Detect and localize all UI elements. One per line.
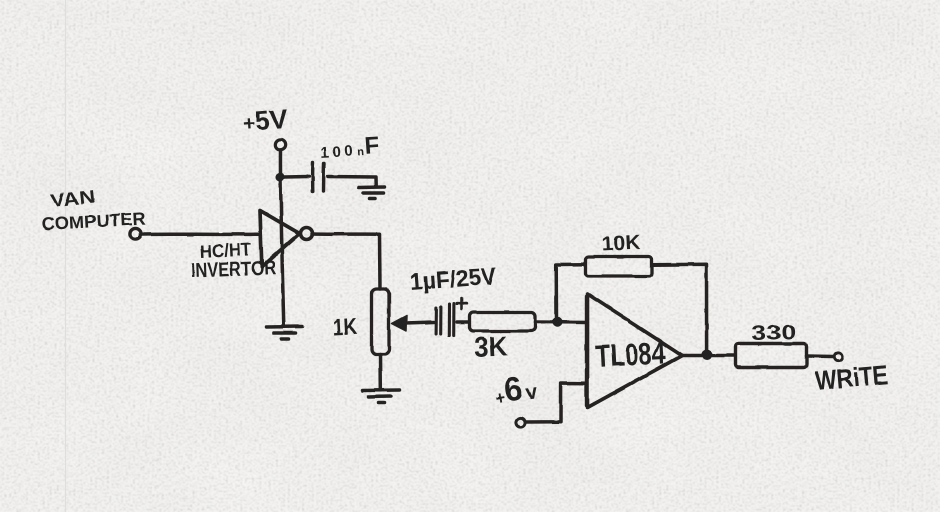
potentiometer wiper arrow — [392, 316, 407, 332]
svg-text:TL084: TL084 — [595, 335, 667, 374]
wire: feedback right and down to output — [652, 264, 707, 351]
capacitor 100nF — [311, 163, 315, 192]
WRITE terminal — [834, 352, 842, 360]
wire: inverter output to 1K pot — [312, 234, 380, 289]
wire: 330 to WRITE terminal — [807, 354, 834, 358]
+6V terminal — [516, 418, 525, 427]
ground (pot) — [363, 388, 400, 392]
wire: +5V supply down through inverter to ground — [280, 151, 283, 327]
op-amp U2 TL084 — [588, 294, 683, 408]
resistor 330 — [736, 344, 807, 368]
+5V terminal — [275, 139, 285, 149]
junction: +5V / 100nF — [275, 172, 284, 181]
inverter U1 triangle — [260, 211, 300, 267]
plus sign of C2 — [457, 299, 467, 310]
potentiometer 1K body — [372, 289, 390, 354]
resistor 10K (feedback) — [586, 257, 652, 277]
inverter output bubble — [301, 228, 313, 240]
resistor 3K — [470, 313, 536, 332]
wire: C1 to ground — [328, 177, 376, 187]
junction: output node — [701, 350, 711, 360]
ground (inverter) — [266, 325, 302, 329]
wire: 3K to op-amp inverting input — [535, 320, 587, 324]
svg-text:WRiTE: WRiTE — [814, 360, 889, 396]
wire: wiper to capacitor C2 — [405, 322, 434, 323]
ground (decoupling) — [359, 185, 385, 189]
wire: junction to capacitor C1 — [284, 175, 309, 179]
input terminal (VAN COMPUTER) — [130, 228, 141, 239]
wire: C2 to resistor 3K — [457, 320, 469, 324]
svg-text:10K: 10K — [601, 232, 642, 256]
svg-text:INVERTOR: INVERTOR — [190, 257, 276, 282]
svg-text:330: 330 — [751, 321, 796, 345]
wire: input terminal to inverter — [141, 232, 259, 236]
svg-text:3K: 3K — [474, 330, 509, 363]
wire: +6V terminal to non-inverting input — [526, 383, 587, 422]
capacitor C2 1uF/25V (polarized) — [435, 308, 438, 334]
junction: inverting input node — [552, 317, 562, 327]
svg-text:1K: 1K — [332, 313, 358, 340]
wire: feedback left vertical and top — [556, 264, 585, 317]
wire: pot bottom to ground — [378, 354, 382, 389]
wire: op-amp output — [682, 354, 735, 358]
